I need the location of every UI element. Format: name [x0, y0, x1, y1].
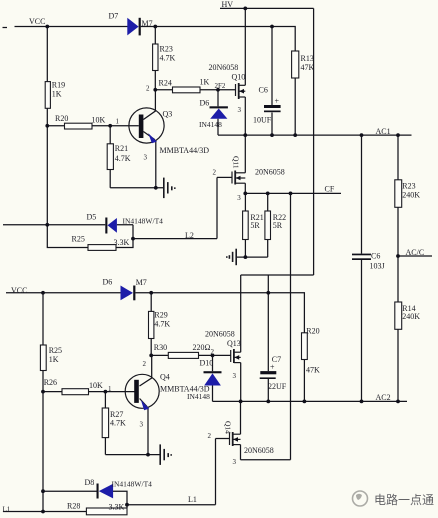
svg-text:D10: D10 — [200, 359, 214, 368]
wire R22 5R bottom lead — [267, 240, 269, 258]
svg-text:20N6058: 20N6058 — [205, 330, 235, 339]
svg-text:M7: M7 — [142, 19, 153, 28]
node R20 47K AC2 — [303, 400, 307, 404]
wire R29 bottom lead — [150, 339, 152, 356]
wire left rail bottom half lower — [42, 371, 44, 512]
resistor R19 1K body — [45, 82, 50, 109]
resistor R21 4.7K body — [107, 144, 113, 170]
node C6 top — [270, 25, 274, 29]
wire gate drive R24 left — [155, 89, 172, 91]
svg-text:C7: C7 — [272, 355, 281, 364]
svg-text:3: 3 — [233, 372, 237, 380]
svg-text:+: + — [275, 97, 280, 106]
node VCC-rail junction — [45, 25, 49, 29]
node Q3 emitter gnd — [154, 186, 158, 190]
svg-text:VCC: VCC — [11, 286, 27, 295]
node R21 base — [108, 124, 112, 128]
svg-text:3: 3 — [237, 194, 241, 202]
ground Q3 emitter — [164, 178, 175, 199]
resistor R14 240K body — [395, 302, 402, 329]
svg-text:Q10: Q10 — [232, 73, 246, 82]
svg-text:R25: R25 — [49, 346, 62, 355]
svg-text:2: 2 — [143, 360, 147, 368]
resistor R26 10K body — [62, 389, 89, 395]
wire Q11 source link down to node 275 and Q14 loop — [290, 193, 292, 459]
svg-text:AC1: AC1 — [376, 127, 391, 136]
node rail D5 cross — [45, 223, 49, 227]
svg-text:IN4148W/T4: IN4148W/T4 — [123, 217, 164, 226]
diode D5 — [105, 218, 117, 234]
node D6 gate — [216, 88, 220, 92]
node Q13 Q14 AC2 — [239, 400, 243, 404]
wire C6 103J bottom lead — [361, 260, 363, 402]
capacitor C7 22UF — [260, 363, 277, 379]
wire Q4 emitter down — [147, 408, 149, 455]
svg-text:2F2: 2F2 — [215, 82, 226, 90]
node Q11 source R21 — [243, 192, 247, 196]
svg-text:IN4148: IN4148 — [187, 392, 210, 401]
svg-text:L1: L1 — [3, 506, 11, 514]
capacitor C6 10UF — [264, 97, 281, 113]
node C6 103J AC1 — [360, 133, 364, 137]
wire D8 net from rail — [43, 490, 97, 492]
transistor Q3 — [129, 108, 164, 143]
wire ground1 run — [110, 187, 163, 189]
wire R21 5R bottom lead — [244, 240, 246, 258]
svg-text:HV: HV — [222, 0, 234, 9]
wire C7 bottom lead — [267, 379, 269, 402]
wire node 275 run — [241, 274, 314, 276]
wire R23 top lead — [154, 27, 156, 45]
wire Q11 source — [244, 183, 246, 193]
wire VCC left edge tick — [3, 27, 8, 29]
node D8 L1 step — [125, 503, 129, 507]
svg-text:IN4148W/T4: IN4148W/T4 — [112, 480, 153, 489]
resistor R25 3.3K body — [88, 245, 116, 251]
node VCC2 rail junction — [41, 291, 45, 295]
wire Q13 drain — [240, 275, 242, 352]
node Q4 emitter gnd — [146, 453, 150, 457]
mosfet Q11 — [232, 171, 245, 185]
svg-text:1K: 1K — [200, 78, 210, 87]
node R23 240K AC1 — [396, 133, 400, 137]
wire HV top — [220, 7, 314, 9]
wire Q4 base right of R26 — [89, 391, 136, 393]
wire Q11 drain — [244, 135, 246, 173]
wire Q4 collector — [140, 355, 152, 386]
svg-text:D6: D6 — [200, 99, 210, 108]
wire Q14 gate down to L1 — [215, 439, 217, 505]
node D5 L2 step — [131, 237, 135, 241]
svg-text:4.7K: 4.7K — [115, 154, 131, 163]
svg-text:R28: R28 — [67, 502, 80, 511]
wire R22 5R top lead — [267, 193, 269, 211]
node Q10 drain at HV — [243, 6, 247, 10]
wire VCC top rail — [15, 26, 128, 28]
wire D6 anode to AC1 — [217, 119, 219, 135]
resistor R29 4.7K body — [149, 311, 154, 338]
svg-text:5R: 5R — [273, 221, 283, 230]
svg-text:240K: 240K — [402, 312, 420, 321]
wire right rail R14 to AC2 — [397, 329, 399, 401]
svg-text:22UF: 22UF — [268, 382, 287, 391]
resistor R27 4.7K body — [102, 408, 108, 438]
wire right rail to R23 240K — [397, 135, 399, 180]
wire R29 top lead — [150, 293, 152, 312]
diode D10 — [204, 371, 222, 385]
node R23 R24 Q3 collector — [153, 88, 157, 92]
diode D7 — [127, 18, 141, 36]
node rail D8 — [41, 489, 45, 493]
node AC/C tap — [396, 254, 400, 258]
wire ground2 run — [236, 256, 267, 258]
svg-text:MMBTA44/3D: MMBTA44/3D — [160, 146, 210, 155]
node C7 at VCC2 wire — [266, 291, 270, 295]
resistor R25 1K body — [40, 345, 46, 371]
svg-text:R30: R30 — [154, 343, 167, 352]
svg-text:2: 2 — [211, 348, 215, 356]
wire R21 bottom lead — [109, 170, 111, 188]
wire C6 103J top lead — [361, 135, 363, 254]
svg-text:4.7K: 4.7K — [154, 320, 170, 329]
wire Q13 source — [240, 363, 242, 402]
svg-text:D8: D8 — [85, 478, 95, 487]
svg-text:M7: M7 — [136, 278, 147, 287]
svg-text:IN4148: IN4148 — [199, 120, 222, 129]
svg-text:VCC: VCC — [29, 17, 45, 26]
wire R27 bottom lead — [104, 438, 106, 455]
svg-text:R23: R23 — [402, 182, 415, 191]
wire R21 top lead — [109, 126, 111, 144]
resistor R22 5R body — [265, 211, 271, 240]
svg-text:电路一点通: 电路一点通 — [374, 492, 434, 507]
svg-text:C6: C6 — [259, 86, 268, 95]
resistor R24 1K body — [173, 87, 201, 93]
svg-text:3: 3 — [233, 458, 237, 466]
svg-text:D5: D5 — [87, 213, 97, 222]
svg-text:3.3K: 3.3K — [109, 503, 125, 512]
wire Q3 base from rail — [47, 125, 66, 127]
resistor R30 220 body — [168, 352, 198, 358]
svg-text:AC2: AC2 — [376, 393, 391, 402]
node R29 top — [149, 291, 153, 295]
mosfet Q13 — [231, 349, 241, 363]
svg-text:20N6058: 20N6058 — [209, 63, 239, 72]
wire left rail bottom half upper — [42, 293, 44, 345]
wire Q14 gate — [216, 438, 230, 440]
node R22 top CF — [266, 192, 270, 196]
wire C7 top lead — [267, 275, 269, 371]
wire VCC after D7 to R13 — [141, 27, 296, 52]
wire C6 bottom lead — [271, 113, 273, 136]
wire L1 left stub — [3, 511, 86, 513]
svg-text:CF: CF — [325, 185, 335, 194]
wire right rail R23 to R14 — [397, 207, 399, 302]
svg-text:Q13: Q13 — [227, 339, 241, 348]
wire Q11 gate — [217, 176, 232, 178]
wire ground3 run — [105, 454, 159, 456]
node R23 top — [153, 25, 157, 29]
wire HV rail down to node — [313, 8, 315, 275]
svg-text:3: 3 — [144, 154, 148, 162]
svg-text:C6: C6 — [371, 252, 380, 261]
wire R21 5R top lead — [244, 193, 246, 211]
wire R23 bottom lead to gate node — [154, 71, 156, 90]
svg-text:R26: R26 — [44, 378, 57, 387]
wire D10 cathode link — [212, 355, 214, 371]
svg-text:4.7K: 4.7K — [110, 419, 126, 428]
svg-text:R20: R20 — [55, 114, 68, 123]
svg-text:10UF: 10UF — [253, 116, 272, 125]
node rail R26 base — [41, 390, 45, 394]
resistor R20 47K body — [302, 333, 308, 360]
wire D10 anode to AC2 — [212, 385, 214, 401]
svg-text:1: 1 — [108, 385, 112, 393]
svg-text:D7: D7 — [109, 12, 119, 21]
svg-text:R13: R13 — [301, 54, 314, 63]
wire D8 cathode segment with step down — [113, 491, 127, 508]
wire D5 cathode segment — [117, 224, 133, 226]
resistor R23 240K body — [395, 180, 402, 208]
wire R13 bottom lead — [294, 78, 296, 135]
diode D6 vertical top half — [210, 106, 228, 118]
svg-text:2: 2 — [146, 85, 150, 93]
diode D8 — [97, 484, 114, 499]
svg-text:3: 3 — [238, 106, 242, 114]
svg-text:R19: R19 — [52, 81, 65, 90]
svg-text:Q3: Q3 — [163, 110, 173, 119]
mosfet Q10 — [236, 83, 246, 99]
wire Q14 drain — [240, 401, 242, 434]
svg-text:R24: R24 — [159, 79, 172, 88]
node D10 gate — [211, 354, 215, 358]
node Q10 source AC1 — [243, 133, 247, 137]
svg-text:R21: R21 — [115, 144, 128, 153]
svg-text:10K: 10K — [92, 116, 106, 125]
node C6 103J AC2 — [360, 400, 364, 404]
node R14 240K AC2 — [396, 400, 400, 404]
svg-text:20N6058: 20N6058 — [244, 446, 274, 455]
resistor R21 5R body — [243, 211, 249, 240]
resistor R20 10K body — [65, 123, 93, 129]
wire Q4 base from rail — [43, 391, 69, 393]
svg-text:R25: R25 — [72, 235, 85, 244]
svg-text:1K: 1K — [52, 90, 62, 99]
wire D6 gate link — [217, 90, 219, 107]
svg-text:10K: 10K — [89, 381, 103, 390]
svg-text:47K: 47K — [301, 63, 315, 72]
svg-text:20N6058: 20N6058 — [255, 168, 285, 177]
svg-text:L1: L1 — [188, 495, 197, 504]
node link down CF — [289, 192, 293, 196]
svg-text:Q11: Q11 — [232, 156, 241, 169]
wire D5 net left stub — [3, 224, 105, 226]
wire Q14 source — [240, 445, 242, 460]
capacitor C6 103J — [352, 254, 371, 260]
wire gate drive R24 right to Q10 gate — [200, 89, 236, 91]
resistor R13 47K body — [292, 51, 299, 78]
wire left rail mid segment — [47, 108, 88, 247]
svg-text:2: 2 — [208, 432, 212, 440]
node rail L1 stub — [41, 510, 45, 514]
wire Q13 gate left — [151, 354, 168, 356]
wire left rail top half — [46, 27, 48, 82]
svg-text:1: 1 — [116, 118, 120, 126]
wire R25 3.3K right segment — [116, 225, 133, 248]
wire Q3 base right of R20 — [92, 125, 139, 127]
svg-text:Q14: Q14 — [224, 421, 233, 434]
svg-text:L2: L2 — [185, 231, 194, 240]
wire AC2 run — [213, 400, 408, 402]
svg-text:220Ω: 220Ω — [193, 343, 211, 352]
wire AC1 run — [218, 134, 412, 136]
svg-text:1K: 1K — [49, 355, 59, 364]
wire VCC bottom after D6 to R20 47K — [135, 293, 304, 333]
svg-text:AC/C: AC/C — [406, 248, 425, 257]
svg-text:R29: R29 — [154, 311, 167, 320]
wire R27 top lead — [104, 392, 106, 408]
wire L2 run — [133, 238, 217, 240]
svg-text:2: 2 — [213, 169, 217, 177]
wire Q11 gate down to L2 — [216, 177, 218, 238]
wire R20 47K bottom lead — [303, 360, 305, 402]
ground R21 R22 5R — [227, 249, 236, 266]
resistor R23 4.7K body — [153, 44, 158, 71]
svg-text:3.3K: 3.3K — [114, 238, 130, 247]
wire Q10 source — [244, 97, 246, 135]
diode D6 bottom half — [121, 286, 136, 301]
wire L1 run — [127, 504, 216, 506]
node R21 5R gnd — [244, 255, 248, 259]
node R27 base — [104, 390, 108, 394]
svg-text:Q4: Q4 — [160, 373, 170, 382]
wire AC/C stub — [398, 255, 432, 257]
svg-text:4.7K: 4.7K — [160, 54, 176, 63]
svg-text:240K: 240K — [402, 191, 420, 200]
node C6 bottom AC1 — [270, 133, 274, 137]
wire C6 top lead — [271, 27, 273, 106]
resistor R28 3.3K body — [86, 508, 127, 515]
wire Q14 source loop — [241, 459, 291, 461]
node C7 bottom AC2 — [266, 400, 270, 404]
mosfet Q14 — [230, 432, 241, 446]
svg-text:R20: R20 — [306, 327, 319, 336]
wire Q3 emitter down — [155, 141, 157, 188]
wire Q13 gate right to symbol — [199, 354, 231, 356]
svg-text:D6: D6 — [103, 278, 113, 287]
node R29 R30 Q4 collector — [149, 354, 153, 358]
svg-text:3: 3 — [140, 421, 144, 429]
node R13 bottom AC1 — [293, 133, 297, 137]
watermark icon — [353, 491, 368, 506]
wire Q10 drain — [244, 8, 246, 85]
wire Q3 collector — [143, 90, 155, 120]
svg-text:47K: 47K — [306, 366, 320, 375]
wire CF run — [245, 192, 341, 194]
ground Q4 emitter — [160, 444, 171, 465]
svg-text:R23: R23 — [160, 45, 173, 54]
node rail R20 base — [45, 124, 49, 128]
wire VCC bottom rail — [6, 292, 121, 294]
svg-text:5R: 5R — [250, 221, 260, 230]
transistor Q4 — [125, 374, 159, 410]
svg-text:103J: 103J — [370, 262, 385, 271]
